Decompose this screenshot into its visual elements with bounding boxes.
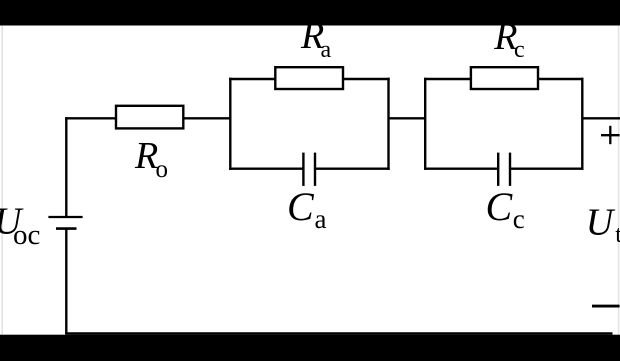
resistor Ra body (275, 67, 343, 89)
capacitor Cc right plate (509, 153, 511, 186)
figure frame right edge (618, 26, 620, 336)
RC block 1: bottom rail left segment (229, 167, 303, 169)
label Uoc (0, 201, 40, 251)
label Ra (300, 15, 332, 63)
svg-text:a: a (321, 37, 332, 63)
wire: left vertical from battery - plate down to bottom rail (65, 229, 67, 334)
svg-text:C: C (287, 184, 315, 229)
label Ut (586, 202, 620, 249)
top black crop bar (0, 0, 620, 26)
RC block 2: left edge wire (424, 78, 426, 170)
wire: left vertical from node A down to battery + plate (65, 117, 67, 217)
capacitor Cc left plate (497, 153, 499, 186)
label Ro (134, 135, 168, 183)
RC block 1: left edge wire (229, 78, 231, 170)
svg-text:C: C (486, 184, 514, 229)
RC block 2: right edge wire (581, 78, 583, 170)
RC block 2: top rail left segment (424, 78, 471, 80)
wire: RC block 1 to RC block 2 (389, 117, 426, 119)
svg-text:U: U (586, 202, 616, 244)
svg-text:c: c (514, 37, 525, 63)
RC block 1: bottom rail right segment (315, 167, 390, 169)
wire: resistor Ro to RC block 1 (183, 117, 230, 119)
battery U_oc negative plate (short) (56, 227, 77, 230)
RC block 2: bottom rail right segment (510, 167, 584, 169)
RC block 2: top rail right segment (538, 78, 584, 80)
svg-text:a: a (315, 204, 327, 234)
figure frame left edge (1, 26, 3, 336)
capacitor Ca left plate (302, 153, 304, 186)
label Ca (287, 184, 327, 234)
wire: bottom return rail (65, 332, 612, 335)
capacitor Ca right plate (314, 153, 316, 186)
RC block 1: right edge wire (387, 78, 389, 170)
bottom black crop bar (0, 335, 620, 361)
battery U_oc positive plate (long) (48, 216, 82, 218)
RC block 1: top rail left segment (229, 78, 275, 80)
svg-text:o: o (156, 156, 169, 183)
svg-text:oc: oc (13, 219, 40, 251)
resistor Rc body (471, 67, 538, 89)
svg-text:c: c (513, 204, 525, 234)
wire: node A to resistor Ro (65, 117, 116, 119)
label Rc (493, 16, 524, 63)
RC block 1: top rail right segment (343, 78, 390, 80)
label Cc (486, 184, 525, 234)
resistor Ro body (116, 106, 183, 129)
svg-text:t: t (615, 222, 620, 248)
wire: RC block 2 to output + terminal (582, 117, 620, 119)
output - polarity sign (592, 305, 620, 308)
RC block 2: bottom rail left segment (424, 167, 498, 169)
output + polarity sign (601, 126, 620, 144)
